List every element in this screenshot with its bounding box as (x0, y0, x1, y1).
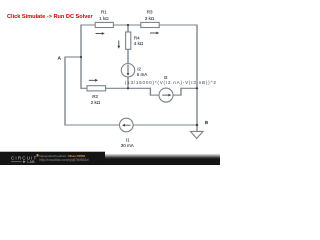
svg-text:4 kΩ: 4 kΩ (134, 41, 144, 46)
svg-text:(13/15000)*(V(I3.nA)-V(I3.nB)): (13/15000)*(V(I3.nA)-V(I3.nB))^2 (125, 80, 217, 85)
svg-text:30 mA: 30 mA (121, 143, 134, 148)
svg-text:R2: R2 (92, 94, 98, 99)
svg-text:2 kΩ: 2 kΩ (91, 100, 101, 105)
svg-text:B: B (205, 120, 208, 125)
svg-text:A: A (58, 55, 61, 60)
svg-text:LAB: LAB (27, 160, 35, 164)
svg-text:I3: I3 (164, 75, 168, 80)
svg-text:Click Simulate -> Run DC Solve: Click Simulate -> Run DC Solver (7, 14, 93, 20)
svg-text:5 mA: 5 mA (137, 72, 148, 77)
svg-text:R3: R3 (147, 10, 153, 15)
svg-text:1 kΩ: 1 kΩ (99, 16, 109, 21)
svg-text:I2: I2 (137, 67, 141, 72)
svg-text:R4: R4 (134, 35, 140, 40)
svg-text:3 kΩ: 3 kΩ (145, 16, 155, 21)
svg-text:http://circuitlab.com/cjhj67f6: http://circuitlab.com/cjhj67f6f563z/ (39, 158, 89, 162)
svg-text:R1: R1 (101, 10, 107, 15)
